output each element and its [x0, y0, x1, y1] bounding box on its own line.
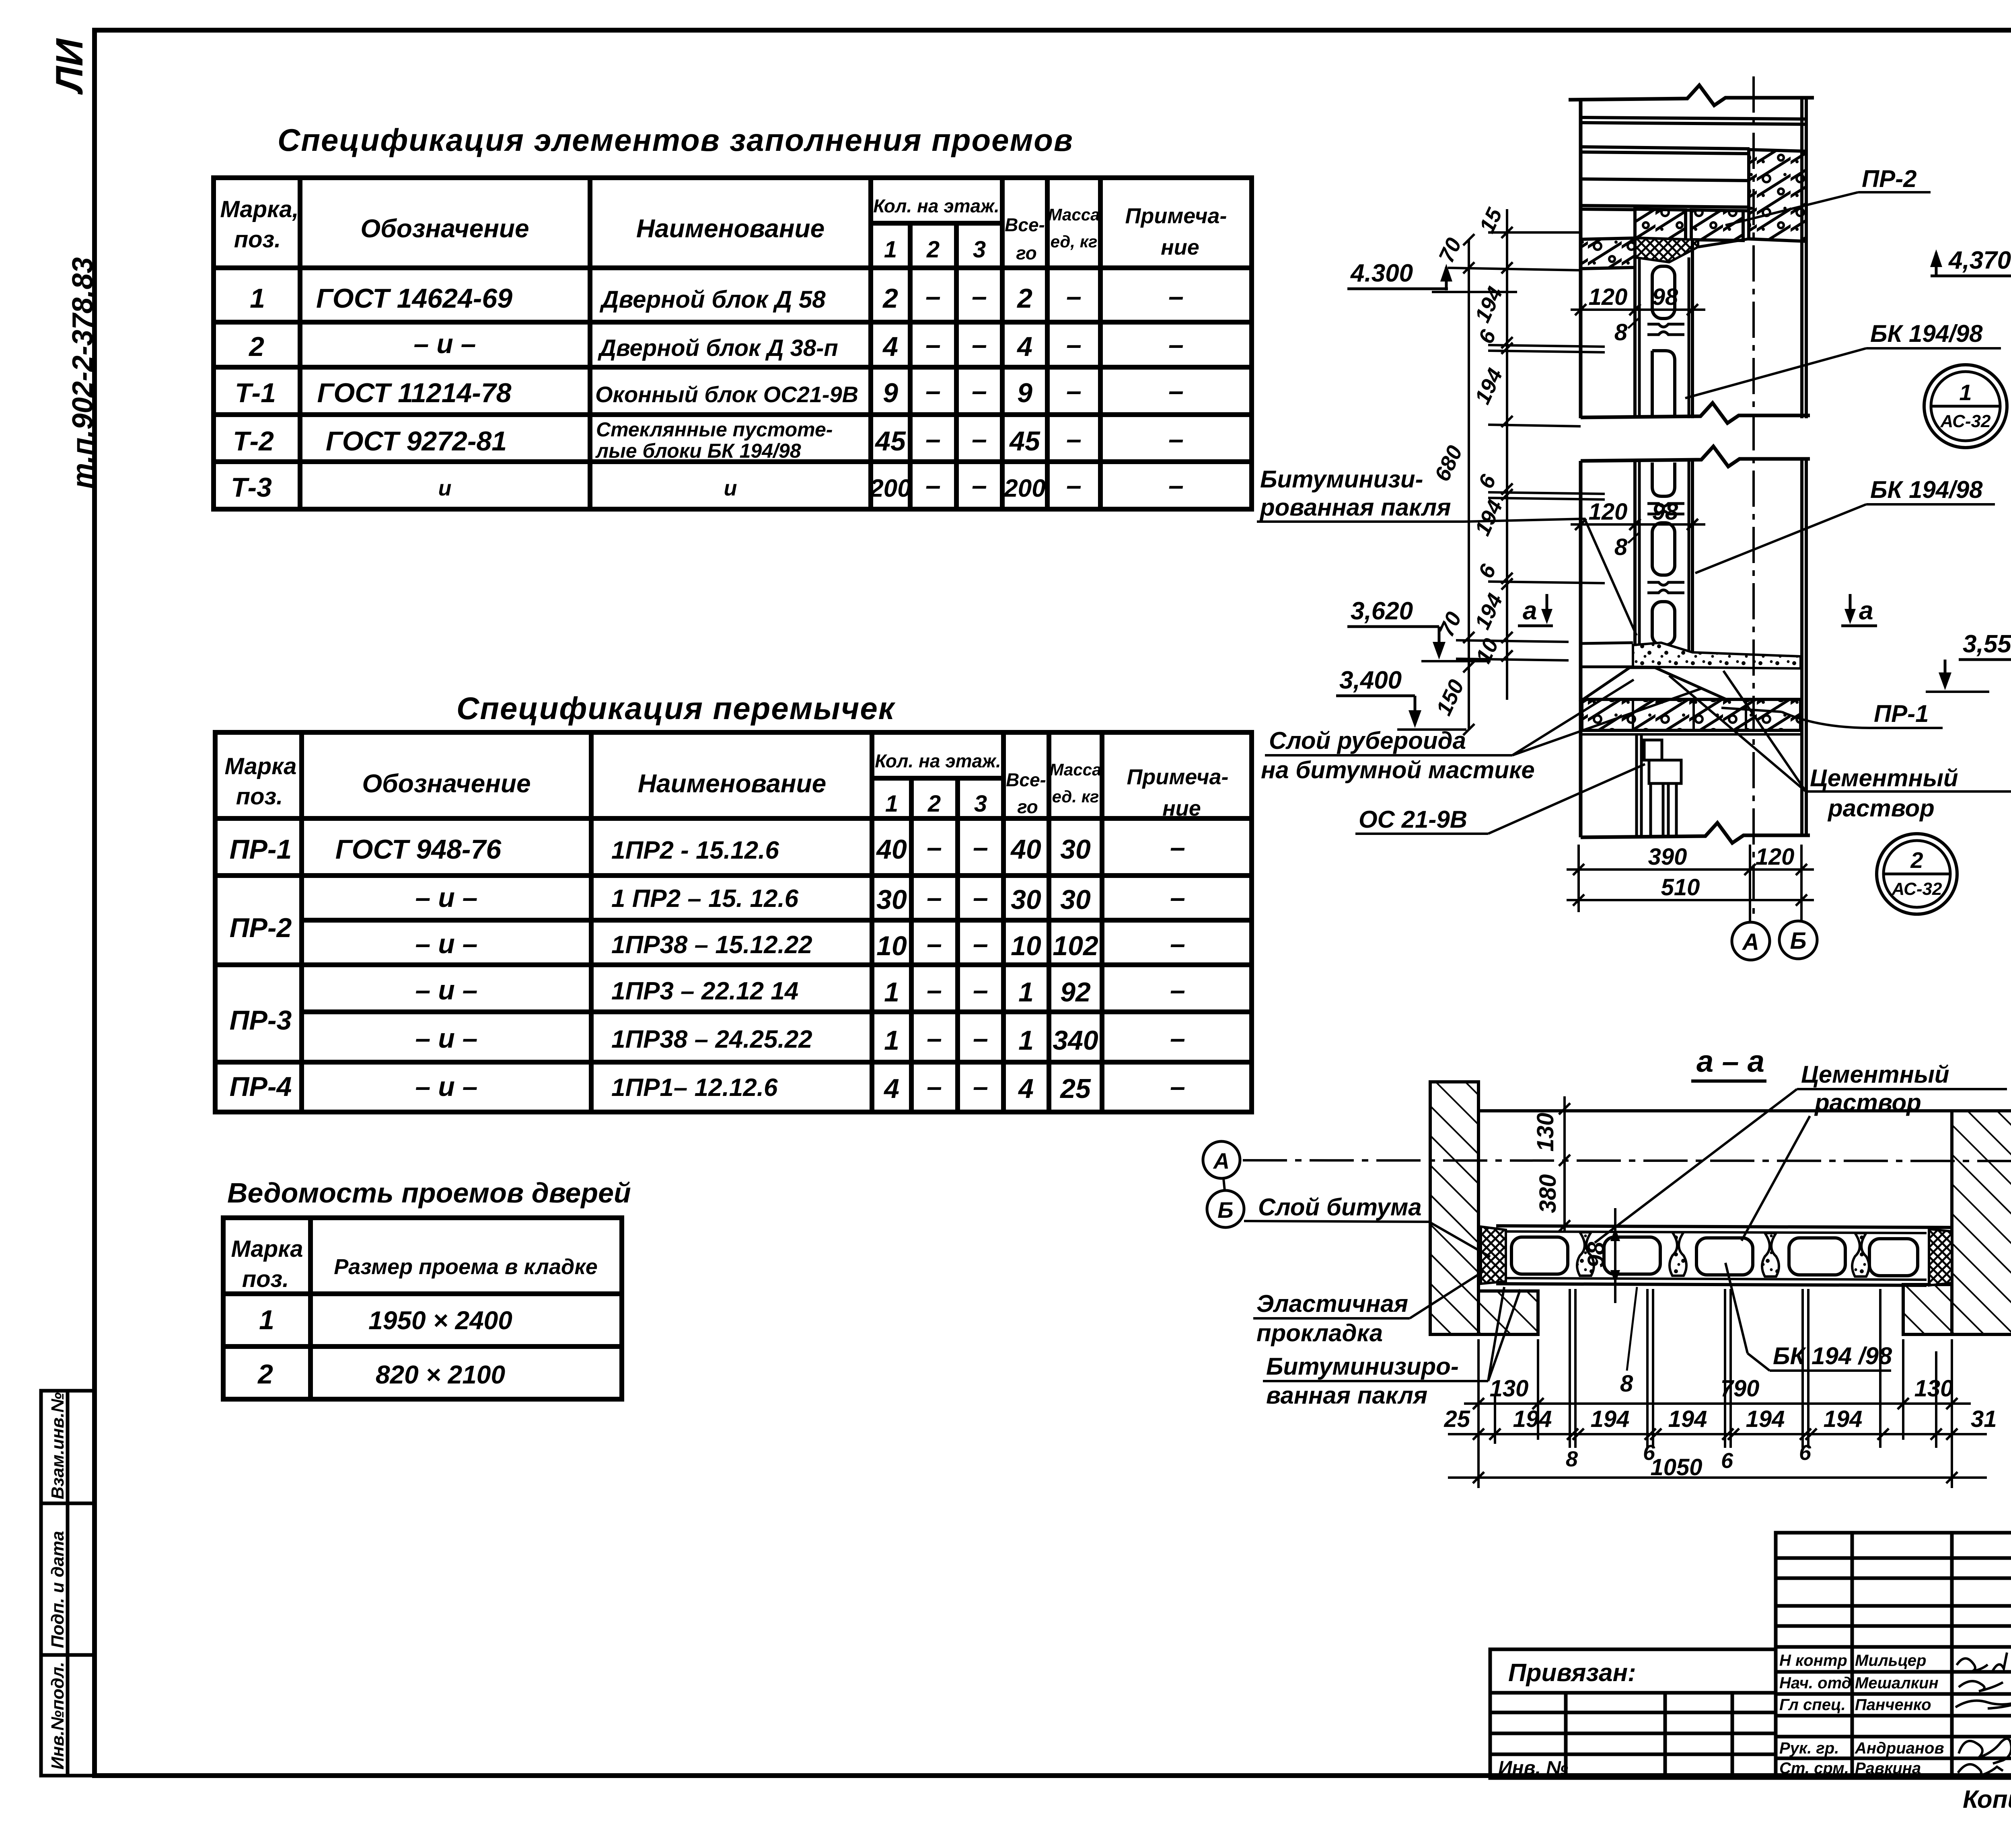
svg-text:120: 120 [1589, 499, 1628, 525]
svg-text:–: – [1168, 329, 1184, 360]
svg-text:–: – [973, 1071, 988, 1102]
svg-text:БК 194/98: БК 194/98 [1870, 320, 1983, 347]
svg-text:– и –: – и – [415, 1023, 478, 1054]
svg-text:1ПР38 – 24.25.22: 1ПР38 – 24.25.22 [611, 1026, 812, 1053]
left wall edge (upper segment) [1579, 100, 1583, 418]
svg-text:1: 1 [884, 1025, 899, 1056]
svg-text:Слой рубероида: Слой рубероида [1269, 727, 1466, 754]
svg-text:Марка: Марка [224, 753, 296, 779]
dimension chain 25/194x5/31 [1448, 1289, 1987, 1448]
svg-text:Дверной блок Д 38-п: Дверной блок Д 38-п [597, 335, 838, 361]
svg-text:–: – [1066, 424, 1082, 454]
svg-text:–: – [1066, 470, 1082, 501]
mortar cross-hatch wedge under lintel [1635, 238, 1698, 262]
svg-text:Масса: Масса [1050, 760, 1102, 779]
svg-text:–: – [925, 470, 941, 501]
svg-text:–: – [925, 329, 941, 360]
leaders to mortar joints [1595, 1089, 1797, 1243]
svg-text:Панченко: Панченко [1855, 1696, 1931, 1714]
dimension line 130/790/130 [1464, 1339, 1971, 1488]
window block ОС 21-9В below lintel [1637, 734, 1681, 837]
svg-text:2: 2 [882, 283, 898, 314]
svg-text:Примеча-: Примеча- [1125, 204, 1227, 228]
svg-text:Б: Б [1790, 928, 1806, 954]
svg-text:–: – [972, 424, 987, 454]
block joint (wavy) [1647, 324, 1684, 335]
svg-text:Битуминизи-: Битуминизи- [1260, 466, 1423, 493]
svg-text:ние: ние [1162, 796, 1201, 820]
staff table grid [1776, 1533, 2011, 1778]
svg-text:Гл спец.: Гл спец. [1779, 1696, 1846, 1714]
svg-text:Равкина: Равкина [1855, 1760, 1921, 1777]
svg-text:Марка: Марка [231, 1236, 303, 1262]
circled axis А (а-а) [1203, 1141, 1240, 1178]
left wall (hatched) [1430, 1082, 1478, 1334]
svg-text:4: 4 [882, 331, 898, 362]
svg-text:6: 6 [1721, 1449, 1733, 1473]
bottom block cavity [1652, 602, 1675, 645]
axis line horizontal (dash-dot) [1243, 1160, 2011, 1161]
svg-text:4: 4 [883, 1073, 899, 1104]
svg-text:–: – [1170, 1071, 1185, 1102]
svg-text:Кол. на этаж.: Кол. на этаж. [875, 750, 1001, 771]
svg-text:Спецификация элементов запол: Спецификация элементов заполнения проемо… [278, 122, 1073, 158]
table 1 header [220, 195, 1227, 263]
vertical dim 130/380 [1559, 1096, 1570, 1231]
svg-text:–: – [972, 281, 987, 312]
svg-text:– и –: – и – [415, 1071, 478, 1102]
glass block column (upper): outer lines [1633, 238, 1637, 418]
svg-text:а – а: а – а [1696, 1044, 1764, 1079]
left dimension chains [1448, 209, 1605, 735]
svg-text:120: 120 [1756, 844, 1795, 870]
svg-text:–: – [925, 281, 941, 312]
svg-text:–: – [973, 882, 988, 913]
svg-text:Рук. гр.: Рук. гр. [1779, 1739, 1839, 1757]
bottom break line of lower segment [1581, 823, 1810, 843]
svg-text:30: 30 [1011, 884, 1041, 915]
lintel pebble block left of pier [1635, 209, 1686, 240]
svg-text:3: 3 [973, 236, 986, 263]
upper wall segment: top break line [1569, 85, 1814, 105]
svg-text:–: – [1168, 424, 1184, 454]
svg-text:–: – [973, 975, 988, 1005]
svg-text:2: 2 [927, 791, 941, 817]
svg-text:8: 8 [1620, 1371, 1633, 1397]
svg-text:194: 194 [1513, 1406, 1552, 1432]
svg-text:–: – [1170, 832, 1185, 863]
lintel ПР-2: big pebble-hatched pier top right [1749, 150, 1806, 241]
svg-text:4: 4 [1018, 1073, 1034, 1104]
svg-text:Обозначение: Обозначение [362, 769, 531, 798]
cement mortar wedge (trapezoid) [1583, 668, 1726, 699]
svg-text:лые блоки БК 194/98: лые блоки БК 194/98 [595, 440, 801, 462]
bottom dimension 510 [1567, 894, 1814, 906]
svg-text:–: – [925, 376, 941, 406]
upper segment bottom break line [1581, 403, 1810, 423]
upper wall band lines [1581, 117, 1806, 211]
svg-text:БК 194/98: БК 194/98 [1870, 476, 1983, 503]
elastic gasket right (cross-hatched) [1929, 1229, 1952, 1285]
svg-text:790: 790 [1721, 1375, 1760, 1402]
svg-text:АС-32: АС-32 [1940, 411, 1991, 431]
block cavities [1511, 1237, 1568, 1274]
table 1: spec of opening fill elements [214, 178, 1252, 509]
right wall lower step [1903, 1285, 1952, 1334]
svg-text:ПР-1: ПР-1 [1874, 700, 1929, 727]
svg-text:390: 390 [1648, 844, 1687, 870]
svg-text:Обозначение: Обозначение [360, 214, 529, 243]
circled axis Б (а-а) [1207, 1190, 1244, 1227]
svg-text:го: го [1016, 243, 1037, 263]
svg-text:120: 120 [1589, 284, 1628, 310]
svg-text:98: 98 [1652, 499, 1678, 525]
svg-text:–: – [927, 882, 942, 913]
svg-text:Ст. срм.: Ст. срм. [1779, 1760, 1849, 1777]
svg-text:ГОСТ 9272-81: ГОСТ 9272-81 [326, 426, 507, 456]
svg-text:а: а [1523, 596, 1537, 625]
lintel ПР-1 hatched band [1582, 699, 1801, 730]
svg-text:2: 2 [257, 1359, 273, 1390]
svg-text:поз.: поз. [234, 226, 281, 253]
sloped mortar line to the right [1698, 239, 1749, 247]
svg-text:А: А [1742, 929, 1759, 955]
svg-text:Эластичная: Эластичная [1256, 1290, 1408, 1317]
svg-text:ПР-4: ПР-4 [230, 1071, 292, 1102]
left wall edge (lower segment) [1579, 461, 1583, 837]
left wall lines at sill level [1581, 643, 1633, 643]
svg-text:раствор: раствор [1827, 795, 1935, 822]
svg-text:194: 194 [1668, 1406, 1707, 1432]
svg-text:130: 130 [1914, 1375, 1953, 1402]
svg-text:поз.: поз. [236, 783, 283, 810]
svg-text:2: 2 [248, 331, 264, 362]
svg-text:Битуминизиро-: Битуминизиро- [1266, 1353, 1459, 1380]
svg-text:ед, кг: ед, кг [1051, 232, 1098, 251]
svg-text:–: – [1066, 376, 1082, 406]
svg-text:Андрианов: Андрианов [1855, 1739, 1944, 1757]
svg-text:102: 102 [1053, 931, 1098, 961]
svg-text:прокладка: прокладка [1256, 1320, 1383, 1346]
svg-text:–: – [927, 929, 942, 959]
svg-text:4: 4 [1016, 331, 1032, 362]
svg-text:Наименование: Наименование [636, 214, 825, 243]
svg-text:–: – [1168, 376, 1184, 406]
svg-text:1ПР3 – 22.12 14: 1ПР3 – 22.12 14 [611, 977, 798, 1005]
svg-text:–: – [927, 975, 942, 1005]
lower 120/98 dimension [1571, 519, 1705, 530]
svg-text:2: 2 [1910, 847, 1923, 873]
svg-text:–: – [972, 329, 987, 360]
svg-text:Все-: Все- [1005, 214, 1045, 235]
svg-text:ПР-1: ПР-1 [230, 834, 292, 865]
svg-text:25: 25 [1059, 1073, 1091, 1104]
svg-text:820 × 2100: 820 × 2100 [376, 1360, 505, 1389]
svg-text:1: 1 [884, 236, 897, 263]
svg-text:рованная пакля: рованная пакля [1259, 494, 1451, 521]
svg-text:–: – [972, 470, 987, 501]
detail circle 1/АС-32 [1924, 365, 2007, 448]
svg-text:–: – [1066, 281, 1082, 312]
svg-text:–: – [1170, 929, 1185, 959]
right wall edge (upper segment) [1800, 99, 1803, 418]
svg-text:БК 194 /98: БК 194 /98 [1773, 1342, 1892, 1369]
dimension 1050 [1448, 1472, 1987, 1483]
svg-text:30: 30 [1060, 834, 1091, 865]
svg-text:–: – [927, 1071, 942, 1102]
svg-text:Привязан:: Привязан: [1508, 1659, 1636, 1687]
svg-text:–: – [1170, 975, 1185, 1005]
wall face line [1478, 1109, 1952, 1112]
svg-text:ед. кг: ед. кг [1052, 787, 1099, 806]
svg-text:1050: 1050 [1650, 1454, 1702, 1480]
svg-text:–: – [1170, 1023, 1185, 1054]
svg-text:АС-32: АС-32 [1892, 879, 1942, 899]
svg-text:–: – [1168, 281, 1184, 312]
svg-text:Копировал:: Копировал: [1963, 1786, 2011, 1813]
table 3: door openings list [223, 1218, 622, 1399]
upper 120/98 dimension [1571, 304, 1705, 315]
svg-text:Примеча-: Примеча- [1127, 765, 1229, 789]
lower wall segment: top break line [1581, 446, 1810, 467]
svg-text:Цементный: Цементный [1801, 1061, 1949, 1088]
block joint 2 [1647, 582, 1684, 593]
svg-text:Все-: Все- [1006, 769, 1046, 790]
svg-text:поз.: поз. [242, 1266, 289, 1292]
svg-text:340: 340 [1053, 1025, 1098, 1056]
extension stubs [1488, 231, 1581, 234]
svg-text:–: – [925, 424, 941, 454]
svg-text:6: 6 [1799, 1441, 1812, 1465]
detail circle 2/АС-32 [1877, 834, 1957, 914]
BOTTOM CENTER: section а-а [1203, 1044, 2011, 1488]
outer chain line 70/680/70/150 [1468, 240, 1470, 730]
svg-text:1ПР38 – 15.12.22: 1ПР38 – 15.12.22 [611, 931, 812, 959]
svg-text:Цементный: Цементный [1810, 765, 1958, 791]
svg-text:ванная пакля: ванная пакля [1266, 1382, 1427, 1409]
svg-text:30: 30 [1060, 884, 1091, 915]
svg-text:25: 25 [1443, 1406, 1470, 1432]
svg-text:194: 194 [1591, 1406, 1630, 1432]
svg-text:Наименование: Наименование [638, 769, 826, 798]
svg-text:3: 3 [974, 791, 987, 817]
svg-text:9: 9 [883, 378, 898, 408]
svg-text:2: 2 [1016, 283, 1032, 314]
svg-text:10: 10 [1011, 931, 1041, 961]
svg-text:–: – [972, 376, 987, 406]
svg-text:– и –: – и – [415, 975, 478, 1005]
svg-text:4.300: 4.300 [1350, 259, 1413, 287]
glass block row: top and bottom lines [1496, 1226, 1952, 1227]
svg-text:8: 8 [1614, 319, 1628, 345]
svg-text:ПР-2: ПР-2 [230, 913, 292, 943]
svg-text:8: 8 [1566, 1447, 1578, 1471]
svg-text:Т-2: Т-2 [233, 426, 274, 456]
svg-text:ЛИ: ЛИ [48, 38, 91, 95]
chain dimension texts (rotated) [1430, 204, 1507, 719]
center axis line (dash-dot) [1752, 76, 1755, 921]
glass column lower: outer lines [1633, 461, 1637, 656]
glass block БК 194/98 lower cavity [1652, 523, 1675, 575]
svg-text:30: 30 [876, 884, 907, 915]
svg-text:40: 40 [1010, 834, 1041, 865]
svg-text:3,620: 3,620 [1351, 597, 1413, 625]
svg-text:1ПР1– 12.12.6: 1ПР1– 12.12.6 [611, 1074, 778, 1102]
svg-text:380: 380 [1535, 1174, 1561, 1213]
svg-text:ГОСТ 11214-78: ГОСТ 11214-78 [317, 378, 511, 408]
table 2 rows [230, 832, 1185, 1104]
svg-text:т.п.902-2-378.83: т.п.902-2-378.83 [67, 257, 99, 489]
svg-text:194: 194 [1824, 1406, 1863, 1432]
svg-text:1: 1 [1959, 380, 1972, 405]
table 2: lintel specification [215, 732, 1252, 1112]
svg-text:– и –: – и – [415, 929, 478, 959]
signatures [1955, 1653, 2011, 1777]
bottom dimension 390/120 [1567, 845, 1814, 921]
svg-text:Взам.инв.№: Взам.инв.№ [48, 1392, 68, 1499]
svg-text:ние: ние [1161, 235, 1199, 259]
svg-text:1: 1 [885, 791, 898, 817]
svg-text:10: 10 [876, 931, 907, 961]
svg-text:на битумной мастике: на битумной мастике [1261, 756, 1535, 783]
svg-text:Б: Б [1217, 1197, 1234, 1223]
svg-text:Инв.№подл.: Инв.№подл. [48, 1662, 68, 1770]
svg-text:Спецификация перемычек: Спецификация перемычек [456, 691, 896, 726]
svg-text:Марка,: Марка, [220, 196, 298, 222]
svg-text:31: 31 [1971, 1406, 1997, 1432]
elastic gasket left (cross-hatched) [1481, 1227, 1506, 1284]
svg-text:Подп. и дата: Подп. и дата [48, 1531, 68, 1648]
svg-text:– и –: – и – [415, 882, 478, 913]
svg-text:Т-1: Т-1 [235, 378, 276, 408]
right wall edges (lower segment) [1800, 459, 1803, 837]
left margin inventory boxes [41, 1391, 95, 1776]
svg-text:Т-3: Т-3 [231, 472, 272, 503]
svg-text:98: 98 [1652, 284, 1678, 310]
glass block БК 194/98 upper cavity 1 [1652, 266, 1675, 319]
svg-text:ПР-3: ПР-3 [230, 1005, 292, 1036]
svg-text:3,550: 3,550 [1963, 630, 2011, 658]
node А circle [1732, 922, 1770, 960]
vertical dim 98 with arrows [1614, 1208, 1616, 1303]
attachment table Привязан [1490, 1649, 1776, 1778]
svg-text:–: – [927, 1023, 942, 1054]
svg-text:8: 8 [1614, 534, 1628, 560]
svg-text:Слой битума: Слой битума [1258, 1194, 1422, 1221]
section marker а (left) [1518, 594, 1553, 626]
table 2 header [224, 750, 1228, 820]
svg-text:3,400: 3,400 [1339, 666, 1402, 694]
svg-text:ОС 21-9В: ОС 21-9В [1359, 806, 1467, 833]
svg-text:200: 200 [869, 475, 911, 502]
svg-text:1: 1 [884, 977, 899, 1007]
svg-text:ГОСТ 14624-69: ГОСТ 14624-69 [316, 283, 512, 314]
svg-text:1 ПР2 – 15. 12.6: 1 ПР2 – 15. 12.6 [611, 885, 799, 913]
right wall (hatched) [1952, 1111, 2011, 1334]
svg-text:1ПР2 - 15.12.6: 1ПР2 - 15.12.6 [611, 837, 779, 864]
svg-text:9: 9 [1017, 378, 1032, 408]
svg-text:– и –: – и – [414, 329, 476, 359]
svg-text:Н контр: Н контр [1779, 1652, 1847, 1669]
svg-text:4,370: 4,370 [1948, 247, 2011, 274]
svg-text:–: – [927, 832, 942, 863]
svg-text:1: 1 [1018, 977, 1034, 1007]
svg-text:ПР-2: ПР-2 [1862, 165, 1917, 192]
svg-text:510: 510 [1661, 874, 1700, 900]
block joint [1647, 504, 1684, 514]
svg-text:Дверной блок Д 58: Дверной блок Д 58 [599, 286, 826, 313]
lintel pebble block right [1691, 210, 1743, 241]
svg-text:2: 2 [926, 236, 940, 263]
svg-text:А: А [1213, 1148, 1230, 1174]
svg-text:1: 1 [250, 283, 265, 314]
svg-text:45: 45 [1009, 426, 1040, 456]
svg-text:1: 1 [1018, 1025, 1034, 1056]
inner chain line 15/194/6/194/6/194/6/194/10 [1506, 209, 1508, 700]
svg-text:–: – [973, 832, 988, 863]
svg-text:194: 194 [1746, 1406, 1785, 1432]
svg-text:1: 1 [259, 1305, 274, 1335]
section marker а (right) [1841, 594, 1877, 626]
svg-text:Ведомость проемов дверей: Ведомость проемов дверей [227, 1177, 631, 1209]
svg-text:–: – [973, 929, 988, 959]
TITLE BLOCK [1490, 1533, 2011, 1816]
svg-text:Масса: Масса [1048, 205, 1100, 224]
mortar joints (stippled dumbbells) [1577, 1232, 1594, 1276]
svg-text:45: 45 [874, 426, 906, 456]
block cavity (cut at top) [1652, 463, 1675, 496]
svg-text:го: го [1017, 796, 1038, 817]
svg-text:Кол. на этаж.: Кол. на этаж. [873, 195, 999, 216]
svg-text:и: и [724, 476, 737, 500]
svg-text:Оконный блок ОС21-9В: Оконный блок ОС21-9В [595, 382, 858, 407]
svg-text:Стеклянные пустоте-: Стеклянные пустоте- [596, 418, 833, 441]
CENTER: vertical wall section [1257, 76, 2011, 960]
glass block upper cavity 2 (cut by break) [1652, 351, 1675, 418]
svg-text:Инв. №: Инв. № [1498, 1758, 1568, 1779]
svg-text:и: и [438, 476, 452, 500]
svg-text:130: 130 [1532, 1113, 1559, 1152]
svg-text:1950 × 2400: 1950 × 2400 [368, 1306, 512, 1335]
svg-text:Мильцер: Мильцер [1855, 1652, 1926, 1669]
svg-text:Мешалкин: Мешалкин [1855, 1674, 1939, 1692]
mortar bed (stipple) under glass column [1633, 643, 1801, 668]
svg-text:–: – [973, 1023, 988, 1054]
svg-text:–: – [1170, 882, 1185, 913]
svg-text:–: – [1168, 470, 1184, 501]
svg-text:Размер проема в кладке: Размер проема в кладке [334, 1255, 598, 1279]
svg-text:200: 200 [1003, 475, 1045, 502]
svg-text:92: 92 [1060, 977, 1091, 1007]
svg-text:98: 98 [1583, 1242, 1609, 1268]
masonry course left of lintel [1581, 238, 1635, 269]
node Б circle [1779, 921, 1817, 959]
svg-text:–: – [1066, 329, 1082, 360]
svg-text:а: а [1859, 596, 1873, 625]
left wall lower step [1478, 1291, 1538, 1334]
svg-text:40: 40 [876, 834, 907, 865]
staff rows text [1779, 1652, 1944, 1777]
svg-text:Нач. отд: Нач. отд [1779, 1674, 1851, 1692]
table 1 rows [231, 281, 1184, 503]
svg-text:ГОСТ 948-76: ГОСТ 948-76 [335, 834, 502, 865]
